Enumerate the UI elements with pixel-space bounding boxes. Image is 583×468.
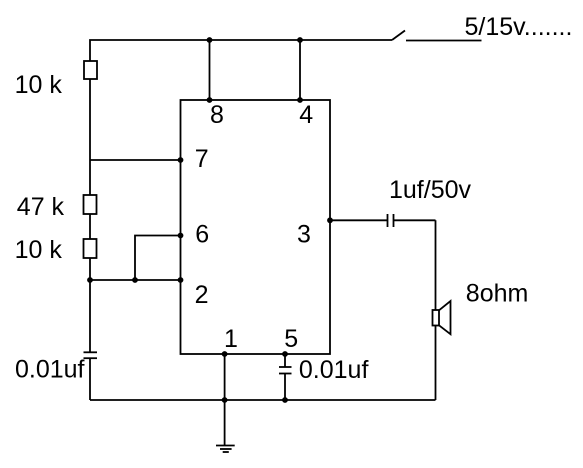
svg-text:8ohm: 8ohm: [466, 280, 529, 308]
svg-text:5: 5: [284, 325, 298, 353]
svg-text:0.01uf: 0.01uf: [299, 356, 369, 384]
svg-text:6: 6: [195, 221, 209, 249]
svg-text:3: 3: [297, 221, 311, 249]
svg-text:1uf/50v: 1uf/50v: [389, 176, 472, 204]
svg-text:10 k: 10 k: [15, 236, 63, 264]
svg-text:47 k: 47 k: [17, 193, 65, 221]
svg-text:2: 2: [195, 281, 209, 309]
svg-text:5/15v.......: 5/15v.......: [465, 13, 573, 41]
svg-text:7: 7: [195, 145, 209, 173]
svg-text:4: 4: [299, 101, 313, 129]
svg-text:8: 8: [210, 101, 224, 129]
svg-text:10 k: 10 k: [15, 71, 63, 99]
svg-text:0.01uf: 0.01uf: [15, 356, 85, 384]
svg-text:1: 1: [224, 325, 238, 353]
